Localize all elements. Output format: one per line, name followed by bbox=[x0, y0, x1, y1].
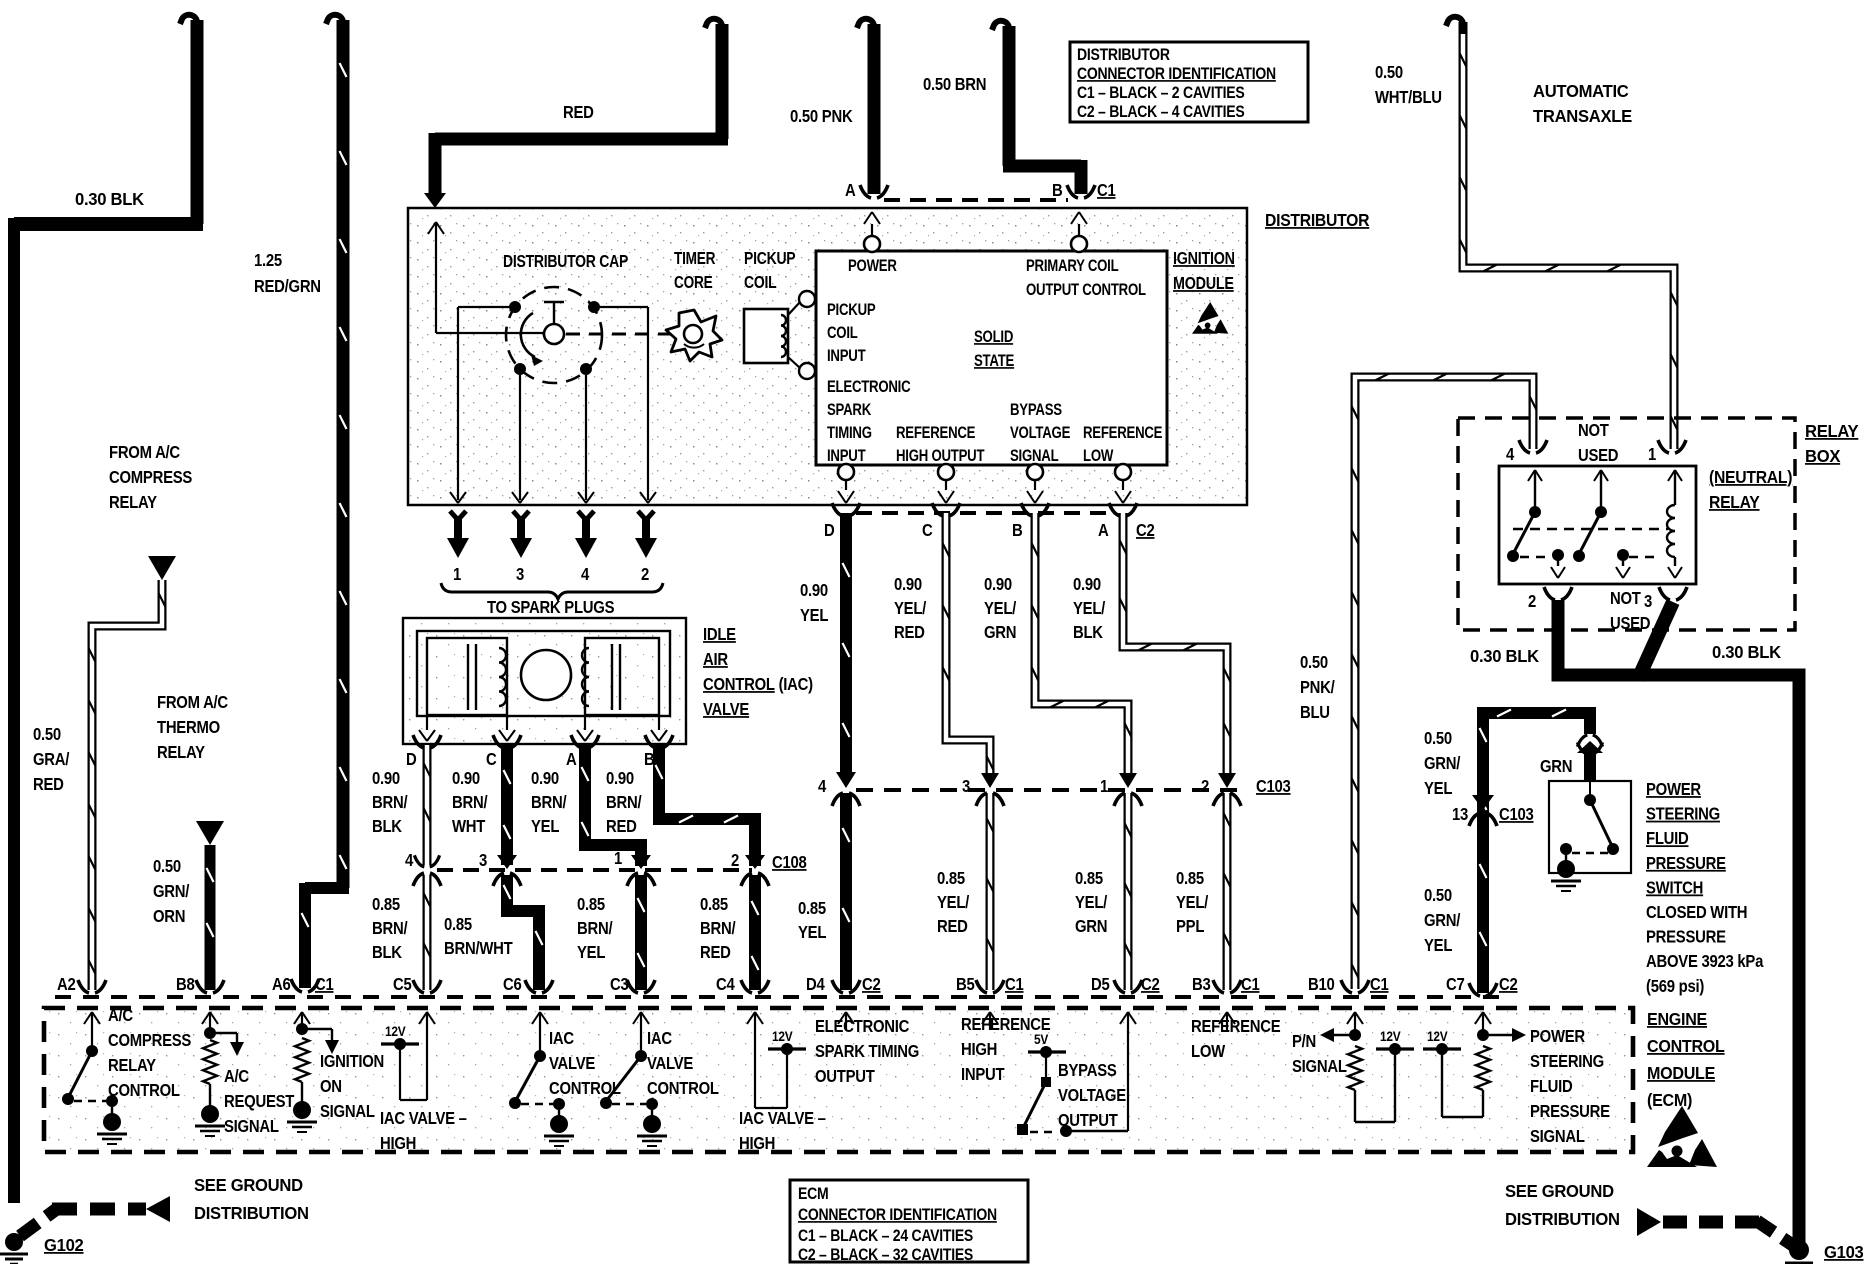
pickup coil bbox=[744, 309, 788, 363]
svg-text:BRN/: BRN/ bbox=[372, 919, 408, 938]
svg-text:B3: B3 bbox=[1192, 975, 1211, 994]
svg-text:SOLID: SOLID bbox=[974, 328, 1014, 347]
svg-text:IAC VALVE –: IAC VALVE – bbox=[739, 1109, 826, 1128]
svg-text:0.90: 0.90 bbox=[531, 769, 559, 788]
relay coil bbox=[1668, 470, 1682, 481]
relay contact to terminal 2 bbox=[1552, 549, 1564, 561]
svg-text:SEE GROUND: SEE GROUND bbox=[1505, 1182, 1614, 1201]
ECM IAC valve-high 12V (C5) bbox=[426, 1012, 428, 1030]
svg-text:A: A bbox=[1098, 521, 1109, 540]
svg-text:YEL: YEL bbox=[800, 606, 828, 625]
svg-text:1: 1 bbox=[453, 565, 461, 584]
relay box (dashed) bbox=[1458, 418, 1795, 630]
svg-text:YEL/: YEL/ bbox=[894, 599, 927, 618]
wire 0.90 YEL/GRN (B to C103-1) bbox=[1021, 503, 1032, 516]
svg-text:YEL/: YEL/ bbox=[1073, 599, 1106, 618]
svg-text:WHT: WHT bbox=[452, 817, 485, 836]
svg-text:0.85: 0.85 bbox=[798, 899, 826, 918]
svg-text:ELECTRONIC: ELECTRONIC bbox=[815, 1017, 910, 1036]
relay contact not used (bottom) bbox=[1617, 549, 1629, 561]
svg-text:NOT: NOT bbox=[1578, 421, 1609, 440]
svg-text:GRN: GRN bbox=[1540, 757, 1572, 776]
svg-text:VALVE: VALVE bbox=[549, 1054, 596, 1073]
wire 0.85 BRN/YEL (C108-1 to ECM C3) bbox=[635, 875, 647, 990]
svg-text:0.90: 0.90 bbox=[1073, 575, 1101, 594]
svg-text:IDLE: IDLE bbox=[703, 625, 736, 644]
svg-text:COMPRESS: COMPRESS bbox=[108, 1031, 191, 1050]
cap wire to plug 2 bbox=[600, 306, 648, 308]
svg-text:12V: 12V bbox=[1427, 1028, 1448, 1044]
idle air control valve box bbox=[403, 618, 686, 744]
svg-text:YEL: YEL bbox=[798, 923, 826, 942]
svg-text:MODULE: MODULE bbox=[1173, 275, 1234, 294]
module pin POWER bbox=[864, 236, 880, 252]
wire 0.90 BRN/YEL (IAC A to C108-1) bbox=[571, 735, 582, 748]
svg-text:RELAY: RELAY bbox=[109, 493, 157, 512]
svg-text:USED: USED bbox=[1610, 614, 1651, 633]
svg-text:0.50: 0.50 bbox=[1424, 886, 1452, 905]
svg-text:C6: C6 bbox=[503, 975, 522, 994]
module pin C (reference high) bbox=[938, 464, 954, 480]
svg-text:YEL/: YEL/ bbox=[1176, 893, 1209, 912]
svg-text:0.90: 0.90 bbox=[894, 575, 922, 594]
svg-text:C2 – BLACK – 32 CAVITIES: C2 – BLACK – 32 CAVITIES bbox=[798, 1246, 973, 1264]
wire 0.90 YEL/RED (C to C103-3) bbox=[932, 503, 943, 516]
svg-text:BLK: BLK bbox=[372, 817, 402, 836]
svg-text:RELAY: RELAY bbox=[1805, 422, 1859, 441]
svg-text:BRN/: BRN/ bbox=[452, 793, 488, 812]
svg-text:CONNECTOR IDENTIFICATION: CONNECTOR IDENTIFICATION bbox=[1077, 65, 1276, 83]
svg-text:PPL: PPL bbox=[1176, 917, 1204, 936]
svg-text:REFERENCE: REFERENCE bbox=[896, 424, 976, 443]
svg-text:ORN: ORN bbox=[153, 907, 185, 926]
rotor rotation arc bbox=[521, 313, 535, 357]
svg-text:1: 1 bbox=[614, 849, 622, 868]
svg-text:BYPASS: BYPASS bbox=[1058, 1061, 1117, 1080]
wire 0.50 BRN (to distributor B) bbox=[1003, 26, 1016, 166]
svg-text:BLK: BLK bbox=[372, 943, 402, 962]
svg-text:3: 3 bbox=[516, 565, 524, 584]
svg-text:RED: RED bbox=[606, 817, 637, 836]
svg-text:(ECM): (ECM) bbox=[1647, 1090, 1692, 1110]
svg-text:4: 4 bbox=[581, 565, 589, 584]
svg-text:0.50 PNK: 0.50 PNK bbox=[790, 107, 853, 126]
relay bottom contact links (dashed) bbox=[1520, 556, 1550, 559]
svg-text:C1: C1 bbox=[1097, 181, 1116, 200]
svg-text:D4: D4 bbox=[806, 975, 825, 994]
svg-text:RED/GRN: RED/GRN bbox=[254, 277, 321, 296]
svg-text:SIGNAL: SIGNAL bbox=[1292, 1057, 1347, 1076]
svg-text:STEERING: STEERING bbox=[1530, 1052, 1604, 1071]
svg-text:YEL: YEL bbox=[577, 943, 605, 962]
relay switch pole 2 bbox=[1594, 470, 1608, 481]
svg-text:G102: G102 bbox=[44, 1236, 83, 1255]
relay terminal 4 bbox=[1519, 440, 1530, 453]
cap wire to plug 1 bbox=[458, 306, 509, 308]
svg-text:B: B bbox=[1012, 521, 1022, 540]
distributor assembly box bbox=[408, 208, 1247, 505]
svg-text:C103: C103 bbox=[1499, 805, 1534, 824]
svg-text:SIGNAL: SIGNAL bbox=[320, 1102, 375, 1121]
wire 0.85 BRN/WHT (C108-3 to ECM C6) bbox=[507, 875, 539, 990]
power steering fluid pressure switch box bbox=[1549, 781, 1631, 873]
svg-text:0.50: 0.50 bbox=[1300, 653, 1328, 672]
wire RED (to distributor) bbox=[716, 24, 729, 139]
svg-text:WHT/BLU: WHT/BLU bbox=[1375, 88, 1442, 107]
svg-text:BRN/: BRN/ bbox=[531, 793, 567, 812]
ESD symbol (ECM) bbox=[1658, 1106, 1698, 1147]
svg-text:C1: C1 bbox=[1241, 975, 1260, 994]
svg-text:5V: 5V bbox=[1034, 1031, 1049, 1047]
relay terminal 1 bbox=[1658, 440, 1669, 453]
svg-text:CORE: CORE bbox=[674, 274, 712, 293]
ECM bypass voltage output switch (D5) bbox=[1028, 1050, 1066, 1053]
svg-text:TRANSAXLE: TRANSAXLE bbox=[1533, 107, 1632, 126]
svg-text:C: C bbox=[922, 521, 933, 540]
svg-text:C2: C2 bbox=[1499, 975, 1518, 994]
svg-text:BRN/WHT: BRN/WHT bbox=[444, 939, 513, 958]
svg-text:LOW: LOW bbox=[1191, 1042, 1226, 1061]
spark plug leads bbox=[450, 511, 466, 520]
svg-text:STEERING: STEERING bbox=[1646, 805, 1720, 824]
svg-text:REFERENCE: REFERENCE bbox=[1083, 424, 1163, 443]
cap wire to plug 3 bbox=[519, 375, 521, 500]
svg-text:FLUID: FLUID bbox=[1646, 829, 1689, 848]
svg-text:PRIMARY COIL: PRIMARY COIL bbox=[1026, 257, 1119, 276]
switch ground bbox=[1557, 860, 1575, 878]
distributor cap bbox=[506, 287, 602, 383]
ECM power steering fluid pressure signal (C7) bbox=[1482, 1012, 1484, 1030]
connector 13 C103 on GRN/YEL wire bbox=[1472, 795, 1494, 810]
svg-text:HIGH: HIGH bbox=[739, 1134, 775, 1153]
wire 0.50 GRN/ORN (to ECM B8) bbox=[205, 845, 216, 990]
neutral relay box bbox=[1499, 466, 1696, 584]
svg-text:RELAY: RELAY bbox=[1709, 492, 1760, 512]
svg-text:BRN/: BRN/ bbox=[606, 793, 642, 812]
svg-text:0.85: 0.85 bbox=[937, 869, 965, 888]
svg-text:OUTPUT CONTROL: OUTPUT CONTROL bbox=[1026, 281, 1146, 300]
wire 0.90 BRN/RED (IAC B to C108-2) bbox=[645, 735, 656, 748]
svg-text:DISTRIBUTION: DISTRIBUTION bbox=[1505, 1210, 1620, 1229]
svg-text:COMPRESS: COMPRESS bbox=[109, 468, 192, 487]
svg-text:GRN/: GRN/ bbox=[153, 882, 190, 901]
ECM A/C compress relay control switch bbox=[91, 1012, 93, 1030]
wire 0.50 PNK (ignition feed to distributor A) bbox=[868, 24, 881, 194]
svg-text:BRN/: BRN/ bbox=[372, 793, 408, 812]
svg-text:A6: A6 bbox=[272, 975, 291, 994]
svg-text:C5: C5 bbox=[393, 975, 412, 994]
svg-text:VOLTAGE: VOLTAGE bbox=[1058, 1086, 1126, 1105]
svg-text:A: A bbox=[845, 181, 856, 200]
svg-text:SIGNAL: SIGNAL bbox=[1010, 447, 1059, 466]
svg-text:ON: ON bbox=[320, 1077, 342, 1096]
svg-text:A/C: A/C bbox=[108, 1006, 133, 1025]
ECM electronic spark timing output (D4) bbox=[845, 1012, 847, 1030]
wire 0.30 BLK (battery feed to G102) bbox=[191, 20, 204, 224]
ESD symbol (ignition module) bbox=[1198, 302, 1219, 323]
svg-text:HIGH: HIGH bbox=[380, 1134, 416, 1153]
ground G102 bbox=[5, 1233, 23, 1251]
connector C2 dashed line bbox=[856, 511, 1116, 515]
wire 0.85 YEL/RED (C103-3 to ECM B5) bbox=[986, 793, 995, 990]
svg-text:0.85: 0.85 bbox=[1075, 869, 1103, 888]
ECM IAC valve-high 12V (C4) bbox=[754, 1012, 756, 1030]
svg-text:C2: C2 bbox=[862, 975, 881, 994]
wire 0.85 YEL/PPL (C103-2 to ECM B3) bbox=[1223, 793, 1232, 990]
svg-text:OUTPUT: OUTPUT bbox=[1058, 1111, 1118, 1130]
wire 0.90 YEL (D to C103-4) bbox=[832, 503, 843, 516]
svg-text:0.85: 0.85 bbox=[577, 895, 605, 914]
svg-text:12V: 12V bbox=[772, 1028, 793, 1044]
wire 0.50 PNK/BLU (relay 4 to ECM B10) bbox=[1355, 377, 1533, 989]
svg-text:TIMER: TIMER bbox=[674, 250, 715, 269]
svg-text:0.90: 0.90 bbox=[452, 769, 480, 788]
timer core bbox=[666, 310, 722, 361]
svg-text:HIGH OUTPUT: HIGH OUTPUT bbox=[896, 447, 984, 466]
svg-text:CONNECTOR IDENTIFICATION: CONNECTOR IDENTIFICATION bbox=[798, 1206, 997, 1224]
svg-text:POWER: POWER bbox=[1530, 1027, 1585, 1046]
svg-text:CONTROL (IAC): CONTROL (IAC) bbox=[703, 675, 813, 694]
svg-text:PICKUP: PICKUP bbox=[827, 301, 876, 320]
svg-text:C103: C103 bbox=[1256, 777, 1291, 796]
wire 0.85 BRN/RED (C108-2 to ECM C4) bbox=[749, 875, 761, 990]
svg-text:ECM: ECM bbox=[798, 1185, 828, 1203]
svg-text:USED: USED bbox=[1578, 446, 1619, 465]
brace to spark plugs bbox=[441, 583, 663, 599]
svg-text:B10: B10 bbox=[1308, 975, 1335, 994]
svg-text:12V: 12V bbox=[385, 1023, 406, 1039]
svg-text:4: 4 bbox=[405, 851, 413, 870]
module pin A (reference low) bbox=[1115, 464, 1131, 480]
IAC pin leads bbox=[426, 715, 428, 730]
wire 0.30 BLK from relay 3 bbox=[1638, 602, 1673, 679]
relay switch pole 1 bbox=[1528, 470, 1542, 481]
svg-text:REQUEST: REQUEST bbox=[224, 1092, 294, 1111]
svg-text:2: 2 bbox=[641, 565, 649, 584]
svg-text:BRN/: BRN/ bbox=[700, 919, 736, 938]
dashed rotor shaft link to timer core bbox=[566, 333, 676, 336]
module pin D (electronic spark timing) bbox=[838, 464, 854, 480]
svg-text:FROM A/C: FROM A/C bbox=[157, 693, 228, 712]
svg-text:RELAY: RELAY bbox=[157, 743, 205, 762]
svg-text:GRN/: GRN/ bbox=[1424, 911, 1461, 930]
svg-text:THERMO: THERMO bbox=[157, 718, 220, 737]
svg-text:D: D bbox=[824, 521, 835, 540]
svg-text:RED: RED bbox=[563, 103, 594, 122]
from A/C compress relay arrow bbox=[148, 556, 176, 580]
svg-text:3: 3 bbox=[962, 777, 970, 796]
svg-text:YEL: YEL bbox=[531, 817, 559, 836]
svg-text:0.30 BLK: 0.30 BLK bbox=[75, 190, 145, 209]
svg-text:INPUT: INPUT bbox=[827, 447, 866, 466]
svg-text:4: 4 bbox=[818, 777, 826, 796]
svg-text:INPUT: INPUT bbox=[827, 347, 866, 366]
svg-text:PRESSURE: PRESSURE bbox=[1646, 928, 1726, 947]
svg-text:VALVE: VALVE bbox=[647, 1054, 694, 1073]
svg-text:4: 4 bbox=[1506, 445, 1514, 464]
ECM terminal dashed line bbox=[55, 995, 1500, 999]
svg-text:DISTRIBUTION: DISTRIBUTION bbox=[194, 1204, 309, 1223]
svg-text:1: 1 bbox=[1648, 445, 1656, 464]
svg-text:2: 2 bbox=[1528, 592, 1536, 611]
svg-text:BLK: BLK bbox=[1073, 623, 1103, 642]
terminal C7 connector mark bbox=[1469, 983, 1480, 996]
ECM P/N signal (B10) bbox=[1354, 1012, 1356, 1030]
wire 0.90 BRN/BLK (IAC D to C108-4) bbox=[413, 735, 424, 748]
svg-text:0.50: 0.50 bbox=[1424, 729, 1452, 748]
C108 pin marks bbox=[413, 873, 424, 886]
svg-text:DISTRIBUTOR CAP: DISTRIBUTOR CAP bbox=[503, 253, 629, 272]
C103 pin 3 mark bbox=[981, 773, 999, 788]
svg-text:BYPASS: BYPASS bbox=[1010, 401, 1062, 420]
svg-text:IGNITION: IGNITION bbox=[320, 1052, 384, 1071]
svg-text:PNK/: PNK/ bbox=[1300, 678, 1335, 697]
svg-text:C108: C108 bbox=[772, 853, 807, 872]
wire 0.50 WHT/BLU (automatic transaxle to relay 1) bbox=[1463, 22, 1674, 449]
svg-text:SPARK TIMING: SPARK TIMING bbox=[815, 1042, 919, 1061]
svg-text:B8: B8 bbox=[176, 975, 195, 994]
wire GRN stub bbox=[1577, 741, 1603, 753]
svg-text:IAC: IAC bbox=[549, 1029, 574, 1048]
IAC motor circle bbox=[521, 650, 571, 700]
svg-text:0.90: 0.90 bbox=[606, 769, 634, 788]
svg-text:C2 – BLACK – 4 CAVITIES: C2 – BLACK – 4 CAVITIES bbox=[1077, 103, 1245, 121]
svg-text:0.50: 0.50 bbox=[33, 725, 61, 744]
svg-text:C1: C1 bbox=[1370, 975, 1389, 994]
svg-text:B: B bbox=[644, 750, 654, 769]
svg-text:COIL: COIL bbox=[827, 324, 858, 343]
svg-text:RED: RED bbox=[937, 917, 968, 936]
svg-text:CONTROL: CONTROL bbox=[647, 1079, 719, 1098]
module pin B (bypass) bbox=[1027, 464, 1043, 480]
terminal A6 connector mark bbox=[291, 979, 302, 992]
svg-text:2: 2 bbox=[1201, 777, 1209, 796]
svg-text:3: 3 bbox=[479, 851, 487, 870]
ECM ignition on signal resistor bbox=[301, 1012, 303, 1030]
svg-text:A: A bbox=[566, 750, 577, 769]
engine control module box (dashed) bbox=[44, 1008, 1633, 1152]
svg-text:PRESSURE: PRESSURE bbox=[1646, 854, 1726, 873]
see ground distribution arrow (right) bbox=[1637, 1208, 1661, 1236]
distributor connector identification table bbox=[1070, 42, 1308, 122]
svg-text:VALVE: VALVE bbox=[703, 700, 750, 719]
svg-text:GRA/: GRA/ bbox=[33, 750, 70, 769]
svg-text:FLUID: FLUID bbox=[1530, 1077, 1573, 1096]
svg-text:CLOSED WITH: CLOSED WITH bbox=[1646, 903, 1747, 922]
svg-text:DISTRIBUTOR: DISTRIBUTOR bbox=[1265, 210, 1369, 230]
svg-text:CONTROL: CONTROL bbox=[1647, 1036, 1725, 1056]
wire 0.85 YEL (C103-4 to ECM D4) bbox=[840, 793, 852, 990]
svg-text:GRN: GRN bbox=[984, 623, 1016, 642]
svg-text:A2: A2 bbox=[57, 975, 76, 994]
terminal B10 connector mark bbox=[1341, 980, 1352, 993]
svg-text:PRESSURE: PRESSURE bbox=[1530, 1102, 1610, 1121]
svg-text:DISTRIBUTOR: DISTRIBUTOR bbox=[1077, 46, 1170, 64]
svg-text:IAC: IAC bbox=[647, 1029, 672, 1048]
svg-text:3: 3 bbox=[1644, 592, 1652, 611]
svg-text:0.85: 0.85 bbox=[1176, 869, 1204, 888]
svg-text:POWER: POWER bbox=[848, 257, 897, 276]
svg-text:0.90: 0.90 bbox=[984, 575, 1012, 594]
svg-text:C2: C2 bbox=[1136, 521, 1155, 540]
svg-text:INPUT: INPUT bbox=[961, 1065, 1005, 1084]
wire from RED feed into cap bbox=[428, 222, 444, 234]
relay terminal 3 bbox=[1659, 587, 1670, 600]
svg-text:C1: C1 bbox=[1005, 975, 1024, 994]
svg-text:VOLTAGE: VOLTAGE bbox=[1010, 424, 1070, 443]
svg-text:SPARK: SPARK bbox=[827, 401, 871, 420]
svg-text:1.25: 1.25 bbox=[254, 251, 282, 270]
svg-text:0.85: 0.85 bbox=[444, 915, 472, 934]
svg-text:SIGNAL: SIGNAL bbox=[1530, 1127, 1585, 1146]
svg-text:C1 – BLACK – 2 CAVITIES: C1 – BLACK – 2 CAVITIES bbox=[1077, 84, 1245, 102]
svg-text:C7: C7 bbox=[1446, 975, 1465, 994]
svg-text:YEL/: YEL/ bbox=[1075, 893, 1108, 912]
switch contact (bottom) with dashed link bbox=[1572, 852, 1608, 854]
svg-text:AUTOMATIC: AUTOMATIC bbox=[1533, 82, 1629, 101]
svg-text:IGNITION: IGNITION bbox=[1173, 250, 1235, 269]
wire 0.85 BRN/BLK (C108-4 to ECM C5) bbox=[423, 875, 432, 990]
svg-text:C2: C2 bbox=[1141, 975, 1160, 994]
svg-text:0.30 BLK: 0.30 BLK bbox=[1712, 643, 1782, 662]
C103 pin 1 mark bbox=[1119, 773, 1137, 788]
svg-text:FROM A/C: FROM A/C bbox=[109, 443, 180, 462]
ECM reference low (B3) bbox=[1226, 1012, 1228, 1030]
svg-text:G103: G103 bbox=[1824, 1243, 1863, 1262]
svg-text:ENGINE: ENGINE bbox=[1647, 1009, 1707, 1029]
ECM connector identification table bbox=[790, 1180, 1028, 1262]
svg-text:RED: RED bbox=[700, 943, 731, 962]
svg-text:BOX: BOX bbox=[1805, 447, 1841, 466]
svg-text:IAC VALVE –: IAC VALVE – bbox=[380, 1109, 467, 1128]
relay terminal 2 bbox=[1544, 587, 1555, 600]
svg-text:YEL: YEL bbox=[1424, 779, 1452, 798]
wire 1.25 RED/GRN (to ECM A6) bbox=[337, 20, 350, 888]
svg-text:B5: B5 bbox=[956, 975, 975, 994]
wire 0.30 BLK from relay 2 to G103 bbox=[1558, 600, 1799, 1243]
svg-text:B: B bbox=[1052, 181, 1062, 200]
svg-text:NOT: NOT bbox=[1610, 589, 1641, 608]
svg-text:TO SPARK PLUGS: TO SPARK PLUGS bbox=[487, 598, 615, 617]
svg-text:YEL/: YEL/ bbox=[937, 893, 970, 912]
svg-text:ELECTRONIC: ELECTRONIC bbox=[827, 378, 911, 397]
svg-text:SWITCH: SWITCH bbox=[1646, 878, 1703, 897]
svg-text:BLU: BLU bbox=[1300, 703, 1330, 722]
svg-text:STATE: STATE bbox=[974, 352, 1014, 371]
ECM reference high input (B5) bbox=[989, 1012, 991, 1030]
svg-text:GRN/: GRN/ bbox=[1424, 754, 1461, 773]
svg-text:0.90: 0.90 bbox=[372, 769, 400, 788]
svg-text:BRN/: BRN/ bbox=[577, 919, 613, 938]
module pin PRIMARY COIL OUTPUT CONTROL bbox=[1071, 236, 1087, 252]
IAC left winding bbox=[427, 638, 507, 715]
svg-text:2: 2 bbox=[731, 851, 739, 870]
connector C108 dashed line bbox=[437, 868, 752, 872]
connector C1 dashed line bbox=[884, 198, 1068, 202]
cap terminal dots bbox=[509, 301, 521, 313]
svg-text:C4: C4 bbox=[716, 975, 735, 994]
svg-text:RELAY: RELAY bbox=[108, 1056, 156, 1075]
wire 0.90 BRN/WHT (IAC C to C108-3) bbox=[493, 735, 504, 748]
svg-text:0.85: 0.85 bbox=[700, 895, 728, 914]
wire 0.50 GRA/RED (to ECM A2) bbox=[92, 580, 162, 990]
svg-text:SIGNAL: SIGNAL bbox=[224, 1117, 279, 1136]
svg-text:(569 psi): (569 psi) bbox=[1646, 977, 1704, 996]
connector C103 dashed line bbox=[856, 788, 1240, 792]
svg-text:12V: 12V bbox=[1380, 1028, 1401, 1044]
svg-text:1: 1 bbox=[1100, 777, 1108, 796]
svg-text:YEL/: YEL/ bbox=[984, 599, 1017, 618]
